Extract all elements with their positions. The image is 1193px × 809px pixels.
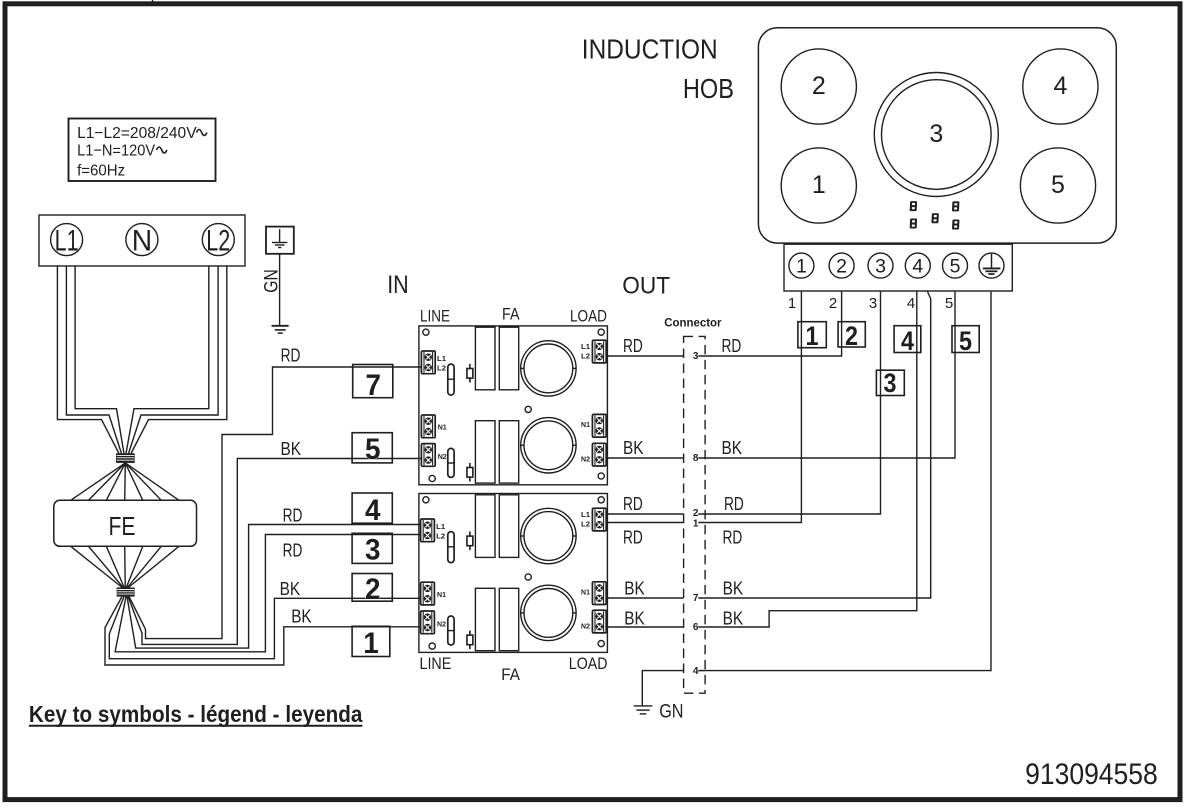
- svg-text:FA: FA: [502, 306, 520, 324]
- svg-text:L2: L2: [437, 364, 446, 373]
- svg-text:BK: BK: [291, 606, 312, 627]
- svg-text:Connector: Connector: [664, 317, 722, 329]
- svg-text:GN: GN: [659, 701, 683, 723]
- svg-text:3: 3: [875, 256, 886, 278]
- svg-text:7: 7: [366, 369, 382, 402]
- svg-text:5: 5: [959, 326, 972, 356]
- svg-text:N2: N2: [438, 452, 447, 461]
- svg-text:8: 8: [693, 453, 699, 464]
- svg-text:L1−L2=208/240V: L1−L2=208/240V: [77, 125, 197, 142]
- svg-text:LINE: LINE: [420, 307, 450, 325]
- svg-text:RD: RD: [724, 493, 744, 514]
- svg-text:1: 1: [788, 295, 796, 312]
- svg-text:2: 2: [365, 573, 381, 606]
- svg-text:L1−N=120V: L1−N=120V: [77, 142, 155, 159]
- svg-text:4: 4: [693, 666, 699, 677]
- svg-text:N1: N1: [581, 420, 590, 429]
- svg-text:L1: L1: [437, 354, 446, 363]
- svg-text:N2: N2: [581, 455, 590, 464]
- svg-text:4: 4: [1053, 72, 1067, 100]
- svg-text:N1: N1: [581, 588, 590, 597]
- svg-text:2: 2: [845, 321, 858, 351]
- svg-text:1: 1: [693, 519, 699, 530]
- svg-text:N: N: [132, 225, 152, 258]
- svg-text:5: 5: [945, 295, 953, 312]
- svg-text:L2: L2: [436, 532, 445, 541]
- svg-text:BK: BK: [280, 578, 301, 599]
- svg-text:5: 5: [1051, 171, 1065, 199]
- svg-text:4: 4: [901, 326, 914, 356]
- svg-text:2: 2: [812, 72, 826, 100]
- svg-text:1: 1: [796, 256, 807, 278]
- svg-text:f=60Hz: f=60Hz: [77, 162, 125, 179]
- svg-text:LOAD: LOAD: [569, 655, 608, 673]
- svg-text:IN: IN: [387, 271, 409, 299]
- svg-text:4: 4: [365, 494, 381, 527]
- svg-text:1: 1: [812, 171, 826, 199]
- svg-text:GN: GN: [262, 269, 283, 293]
- svg-text:2: 2: [693, 508, 699, 519]
- svg-text:3: 3: [693, 351, 699, 362]
- svg-text:L1: L1: [436, 522, 445, 531]
- svg-text:BK: BK: [623, 437, 644, 458]
- svg-text:L1: L1: [581, 510, 590, 519]
- svg-text:6: 6: [693, 622, 699, 633]
- svg-text:RD: RD: [283, 505, 303, 526]
- svg-text:RD: RD: [722, 335, 742, 356]
- svg-text:N2: N2: [581, 622, 590, 631]
- svg-text:L2: L2: [206, 225, 230, 258]
- svg-text:BK: BK: [722, 437, 743, 458]
- svg-text:3: 3: [929, 120, 943, 148]
- svg-text:RD: RD: [623, 527, 643, 548]
- svg-text:RD: RD: [623, 335, 643, 356]
- svg-text:N1: N1: [437, 590, 446, 599]
- svg-text:L1: L1: [55, 225, 79, 258]
- svg-text:L1: L1: [581, 342, 590, 351]
- svg-text:BK: BK: [281, 438, 302, 459]
- svg-text:RD: RD: [281, 345, 301, 366]
- svg-text:5: 5: [950, 256, 961, 278]
- svg-text:3: 3: [869, 295, 877, 312]
- svg-text:RD: RD: [623, 493, 643, 514]
- svg-text:L2: L2: [581, 352, 590, 361]
- svg-text:BK: BK: [723, 607, 744, 628]
- svg-text:HOB: HOB: [683, 73, 734, 104]
- svg-text:7: 7: [693, 593, 699, 604]
- svg-text:N2: N2: [437, 620, 446, 629]
- svg-text:1: 1: [806, 321, 819, 351]
- svg-text:BK: BK: [624, 578, 645, 599]
- svg-text:1: 1: [363, 627, 379, 660]
- svg-text:FE: FE: [109, 511, 136, 541]
- svg-text:Key to symbols - légend - leye: Key to symbols - légend - leyenda: [29, 701, 363, 727]
- svg-text:RD: RD: [283, 540, 303, 561]
- svg-text:4: 4: [912, 256, 923, 278]
- svg-text:BK: BK: [723, 578, 744, 599]
- svg-text:BK: BK: [624, 607, 645, 628]
- svg-text:LINE: LINE: [420, 655, 452, 673]
- svg-text:FA: FA: [501, 666, 520, 684]
- svg-text:INDUCTION: INDUCTION: [582, 34, 718, 65]
- svg-text:2: 2: [836, 256, 847, 278]
- svg-text:913094558: 913094558: [1025, 758, 1158, 791]
- svg-text:L2: L2: [581, 520, 590, 529]
- svg-text:5: 5: [365, 433, 381, 466]
- svg-text:2: 2: [829, 295, 837, 312]
- svg-text:4: 4: [907, 295, 915, 312]
- svg-text:RD: RD: [723, 527, 743, 548]
- svg-text:3: 3: [365, 534, 381, 567]
- svg-text:N1: N1: [438, 423, 447, 432]
- svg-text:OUT: OUT: [622, 273, 670, 300]
- svg-text:3: 3: [884, 368, 897, 398]
- svg-text:LOAD: LOAD: [570, 307, 607, 325]
